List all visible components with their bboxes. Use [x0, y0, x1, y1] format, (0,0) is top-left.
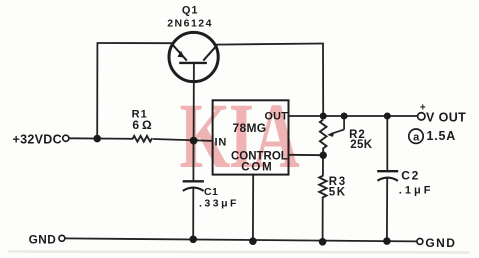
svg-text:GND: GND — [425, 236, 456, 250]
IC U1 78MG box — [213, 100, 289, 174]
junction node: C2/gnd — [383, 237, 391, 245]
junction node: riser/input rail — [93, 135, 101, 143]
svg-text:Q1: Q1 — [182, 4, 199, 16]
svg-text:78MG: 78MG — [233, 121, 267, 135]
svg-text:+32VDC: +32VDC — [13, 132, 62, 146]
svg-text:OUT: OUT — [265, 110, 289, 122]
svg-text:a: a — [413, 131, 420, 143]
scan artifact streak — [8, 252, 470, 253]
svg-text:6Ω: 6Ω — [132, 118, 154, 132]
wire: R3 upper lead — [322, 155, 324, 176]
wire: collector top horizontal — [215, 44, 324, 45]
wire: CONTROL pin — [289, 154, 324, 156]
terminal: GND right — [417, 238, 423, 244]
junction node: C2/OUT rail — [384, 113, 391, 120]
wire: input rail right segment — [154, 139, 213, 141]
wire: emitter top horizontal — [98, 42, 173, 44]
terminal: V OUT — [418, 113, 425, 120]
junction node: R3/gnd — [319, 238, 327, 246]
wire: base vertical — [193, 63, 195, 141]
wire: left vertical riser — [96, 43, 98, 139]
svg-text:V OUT: V OUT — [426, 111, 466, 125]
wire: C2 upper lead — [386, 116, 388, 171]
wire: C1 lower lead — [192, 188, 194, 239]
transistor Q1 — [169, 32, 218, 81]
svg-text:1.5A: 1.5A — [427, 129, 457, 143]
resistor R3 — [319, 176, 326, 198]
svg-text:GND: GND — [29, 232, 57, 246]
terminal: GND left — [59, 235, 65, 241]
terminal: +32VDC input — [63, 135, 69, 141]
watermark KIA — [179, 85, 299, 188]
svg-text:.33μF: .33μF — [199, 198, 239, 210]
resistor R2 — [320, 120, 327, 153]
junction node: base/R1/IN — [190, 137, 198, 145]
svg-text:COM: COM — [241, 161, 273, 173]
svg-text:+: + — [420, 103, 426, 114]
svg-text:.1μF: .1μF — [399, 184, 434, 196]
wire: COM vertical — [252, 175, 254, 242]
wire: R3 lower lead — [322, 197, 324, 241]
capacitor C1 — [183, 181, 204, 191]
R2 wiper — [331, 116, 345, 134]
svg-text:C2: C2 — [401, 169, 420, 183]
wire: ground rail — [65, 238, 417, 241]
svg-text:5K: 5K — [329, 186, 347, 198]
wire: C1 upper lead — [192, 141, 194, 182]
wire: C2 lower lead — [386, 179, 388, 242]
junction node: C1/gnd — [189, 236, 197, 244]
symbol at 1.5A — [409, 129, 423, 143]
junction node: collector/OUT rail — [320, 113, 327, 120]
junction node: wiper/OUT rail — [341, 113, 348, 120]
wire: input rail left segment — [69, 137, 132, 140]
junction node: R2/R3/CONTROL — [320, 152, 327, 159]
wire: OUT rail — [289, 115, 418, 117]
capacitor C2 — [377, 171, 398, 181]
svg-text:C1: C1 — [204, 186, 218, 198]
junction node: COM/gnd — [249, 237, 257, 245]
resistor R1 — [133, 136, 152, 142]
svg-text:IN: IN — [214, 136, 227, 148]
wire: collector vertical drop — [322, 44, 324, 117]
svg-text:2N6124: 2N6124 — [167, 17, 213, 29]
svg-text:25K: 25K — [350, 139, 372, 151]
